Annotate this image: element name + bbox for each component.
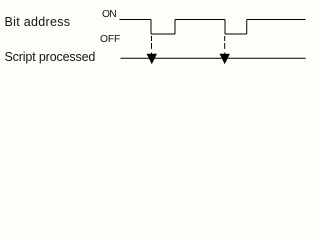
wire: bit-address high segment B <box>175 19 225 21</box>
wire: bit-address high segment A <box>120 19 152 21</box>
label OFF <box>100 34 120 45</box>
arrowhead 1 <box>147 54 157 64</box>
wire: low segment dip 2 (OFF) <box>225 33 247 35</box>
wire: dashed trigger line 1, dash c <box>151 53 153 55</box>
wire: script processed baseline <box>121 57 306 59</box>
wire: falling edge 2 <box>224 20 226 35</box>
wire: dashed trigger line 1, dash a <box>151 36 153 41</box>
wire: low segment dip 1 (OFF) <box>151 33 175 35</box>
wire: dashed trigger line 1, dash b <box>151 43 153 49</box>
wire: dashed trigger line 2, dash b <box>224 43 226 49</box>
wire: rising edge 2 <box>246 20 248 35</box>
label ON <box>102 9 116 20</box>
arrowhead 2 <box>220 54 230 64</box>
wire: rising edge 1 <box>174 20 176 35</box>
label "Script processed" <box>5 50 96 64</box>
wire: dashed trigger line 2, dash a <box>224 36 226 41</box>
label "Bit address" <box>5 15 71 29</box>
wire: dashed trigger line 2, dash c <box>224 53 226 55</box>
wire: falling edge 1 <box>150 20 152 35</box>
wire: bit-address high segment C <box>247 19 306 21</box>
